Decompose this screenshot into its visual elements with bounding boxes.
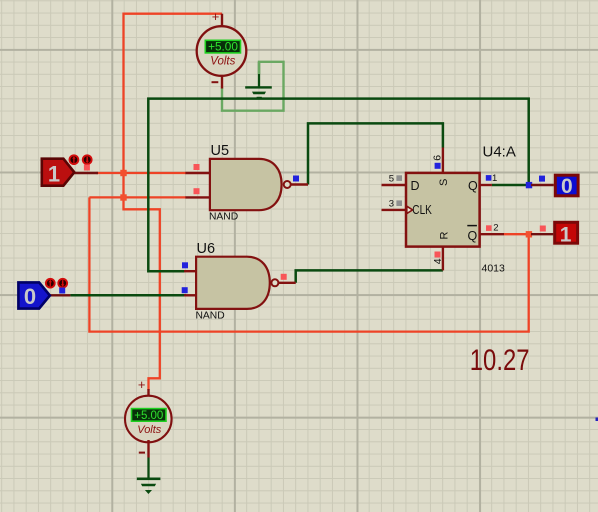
pin float square: CLK (grey): [396, 200, 402, 206]
state square: P1 input (blue): [539, 176, 545, 182]
wire: +5V orange rail from VM1(+) left and down to node A: [124, 14, 223, 173]
svg-text:3: 3: [389, 198, 394, 209]
svg-text:NAND: NAND: [209, 212, 238, 223]
ground GND2 (bottom, below VM2): [137, 458, 161, 495]
wire: orange U5 input B row: [89, 196, 186, 198]
svg-text:+5.00: +5.00: [208, 40, 238, 54]
logic probe P2 (shows 1): [531, 222, 578, 246]
voltmeter VM1 (+5.00 Volts, top): [197, 9, 247, 89]
logic input SW1 (state 1): [42, 155, 98, 186]
ground GND1 (top, near VM1): [245, 62, 272, 99]
junction: node A (orange): [120, 170, 126, 176]
pin float square: D (grey): [396, 175, 402, 181]
state square: R pin (red): [435, 252, 441, 258]
wire: orange U5 input A row (from SW1): [96, 172, 186, 174]
NAND gate U6: [184, 241, 296, 321]
svg-text:Volts: Volts: [210, 56, 235, 68]
svg-text:CLK: CLK: [412, 203, 432, 217]
state square: SW2 output (blue): [59, 288, 65, 294]
svg-text:D: D: [411, 179, 420, 193]
cursor mark at right edge: [596, 418, 598, 422]
wire: light green net VM1(-) to GND1: [222, 62, 284, 111]
svg-text:4013: 4013: [482, 263, 506, 275]
NAND gate U5: [185, 143, 308, 223]
svg-text:U5: U5: [211, 143, 230, 159]
svg-text:4: 4: [432, 258, 444, 264]
state square: P2 input (red): [540, 226, 546, 232]
svg-text:Volts: Volts: [137, 424, 162, 436]
state square: U5 input A (red): [194, 164, 200, 170]
svg-text:1: 1: [492, 173, 497, 184]
state square: Qbar pin (red): [486, 225, 492, 231]
svg-text:0: 0: [561, 175, 573, 198]
svg-text:U6: U6: [197, 241, 216, 257]
svg-text:2: 2: [493, 222, 498, 233]
junction: Qbar node (orange): [526, 231, 532, 237]
junction: Q node (blue): [526, 182, 532, 188]
state square: U6 input A (blue): [182, 262, 188, 268]
svg-text:NAND: NAND: [196, 310, 225, 321]
svg-text:10.27: 10.27: [470, 342, 530, 376]
wire: dark green U5 output to U4 S pin: [308, 123, 443, 184]
wire: orange feedback rail Qbar to U5 input B: [89, 197, 528, 331]
state square: U5 output (blue): [293, 176, 299, 182]
svg-text:5: 5: [389, 173, 394, 184]
junction: node B (orange): [120, 194, 126, 200]
state square: SW1 output (red): [84, 165, 90, 171]
svg-text:Q: Q: [468, 179, 478, 193]
flip-flop U4:A (4013): [382, 143, 516, 274]
wire: orange segment node A to node B: [122, 173, 124, 197]
svg-text:U4:A: U4:A: [483, 143, 516, 160]
logic probe P1 (shows 0): [531, 175, 578, 198]
wire: dark green U6 input B row (from SW2): [70, 294, 186, 297]
svg-text:6: 6: [431, 155, 443, 161]
svg-text:1: 1: [48, 162, 60, 187]
wire: orange Qbar pin to junction: [504, 233, 529, 235]
wire: dark green Q net vertical and main horizontal to U6 input A: [148, 99, 528, 272]
logic input SW2 (state 0): [18, 279, 70, 309]
svg-text:0: 0: [24, 284, 36, 309]
state square: U6 input B (blue): [182, 287, 188, 293]
svg-text:+5.00: +5.00: [134, 410, 163, 422]
state square: Q pin (blue): [486, 175, 492, 181]
svg-text:R: R: [438, 231, 450, 239]
svg-text:Q: Q: [468, 229, 478, 243]
state square: S pin (blue): [435, 163, 441, 169]
svg-text:+: +: [212, 9, 220, 24]
state square: U6 output (red): [281, 274, 287, 280]
state square: U5 input B (red): [194, 188, 200, 194]
voltmeter VM2 (+5.00 Volts, bottom): [125, 377, 172, 458]
svg-text:S: S: [438, 179, 450, 186]
svg-text:1: 1: [560, 223, 572, 246]
wire: dark green Q pin to junction: [492, 184, 529, 187]
wire: dark green U6 output to U4 R pin: [296, 270, 443, 282]
wire: orange from node B down to VM2(+): [124, 197, 160, 390]
svg-text:+: +: [138, 377, 146, 392]
